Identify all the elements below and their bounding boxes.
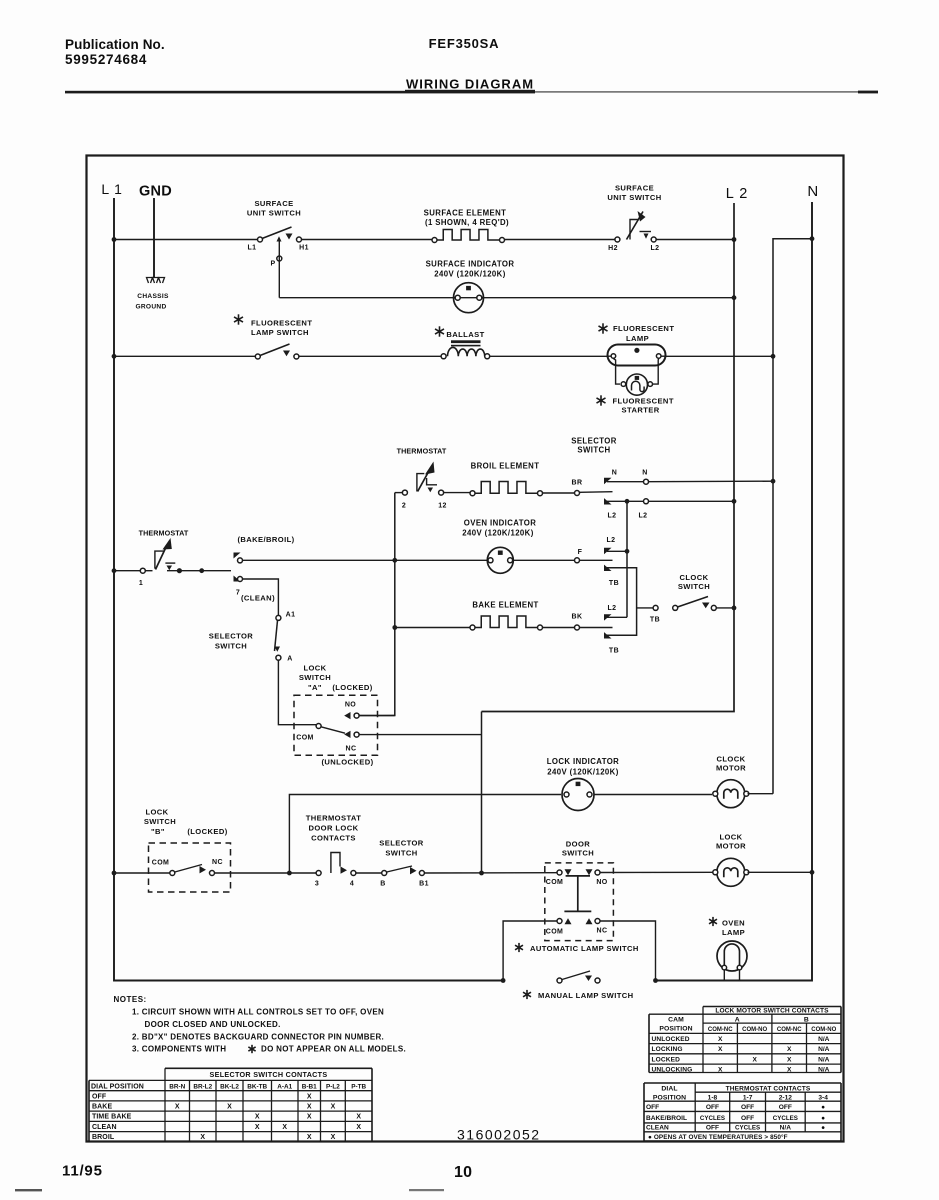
svg-text:X: X (752, 1056, 757, 1063)
svg-text:(1 SHOWN, 4 REQ'D): (1 SHOWN, 4 REQ'D) (425, 218, 509, 227)
oven thermostat (395, 492, 402, 494)
oven lamp asterisk (712, 917, 714, 926)
svg-text:BROIL ELEMENT: BROIL ELEMENT (471, 462, 540, 471)
svg-text:BALLAST: BALLAST (446, 330, 484, 339)
bake/broil contact B (234, 553, 241, 559)
svg-text:MANUAL LAMP SWITCH: MANUAL LAMP SWITCH (538, 991, 634, 1000)
door switch dashed box (545, 863, 614, 941)
terminal BR (575, 491, 580, 496)
svg-text:L2: L2 (651, 245, 660, 252)
svg-text:SWITCH: SWITCH (385, 849, 417, 858)
svg-text:BK: BK (572, 614, 583, 621)
svg-text:●: ● (821, 1124, 825, 1131)
svg-text:LOCK: LOCK (145, 808, 168, 817)
svg-text:SWITCH: SWITCH (215, 642, 247, 651)
svg-text:NO: NO (345, 702, 356, 709)
clock motor (717, 780, 745, 808)
svg-text:CYCLES: CYCLES (700, 1115, 725, 1122)
svg-text:COM: COM (546, 879, 564, 886)
svg-text:CLEAN: CLEAN (646, 1124, 669, 1131)
svg-text:X: X (175, 1104, 180, 1111)
svg-text:OFF: OFF (741, 1115, 754, 1122)
svg-text:OFF: OFF (779, 1104, 792, 1111)
wire clock motor to N branch (748, 793, 774, 795)
svg-text:X: X (718, 1036, 723, 1043)
svg-text:(CLEAN): (CLEAN) (241, 594, 275, 603)
bake element (470, 625, 475, 630)
lock switch A NC contact (344, 731, 350, 738)
svg-text:OFF: OFF (706, 1124, 719, 1131)
door switch lower pole (557, 919, 562, 924)
svg-text:MOTOR: MOTOR (716, 764, 746, 773)
wire NC to door lock feed (359, 734, 482, 736)
lock switch A NO contact (344, 712, 350, 719)
svg-text:SURFACE ELEMENT: SURFACE ELEMENT (424, 209, 507, 218)
svg-text:1-7: 1-7 (743, 1094, 753, 1101)
svg-text:BR: BR (572, 480, 583, 487)
svg-text:COM: COM (152, 860, 170, 867)
lock motor (717, 858, 745, 886)
svg-text:DIAL: DIAL (661, 1086, 677, 1093)
selector switch contact N row (604, 478, 612, 484)
svg-text:X: X (307, 1104, 312, 1111)
wire lock motor to N (748, 871, 813, 873)
svg-text:OVEN INDICATOR: OVEN INDICATOR (464, 519, 536, 528)
manual lamp switch (501, 978, 506, 983)
svg-text:UNIT SWITCH: UNIT SWITCH (607, 193, 661, 202)
svg-text:●: ● (821, 1115, 825, 1122)
svg-text:B1: B1 (419, 881, 429, 888)
svg-text:N: N (807, 183, 818, 200)
svg-text:L 2: L 2 (726, 186, 749, 202)
svg-text:(UNLOCKED): (UNLOCKED) (321, 758, 373, 767)
svg-text:TB: TB (650, 617, 660, 624)
automatic lamp switch asterisk (518, 943, 520, 952)
lock motor switch contacts table (649, 1007, 841, 1073)
svg-text:POSITION: POSITION (659, 1026, 692, 1033)
svg-text:UNIT SWITCH: UNIT SWITCH (247, 209, 301, 218)
wire lock switch B to riser (215, 872, 317, 874)
wire door switch lower NC to oven lamp feed (600, 921, 656, 981)
thermostat door lock contact terminal 3 (316, 871, 321, 876)
wire to selector B (356, 872, 382, 874)
svg-text:NC: NC (597, 928, 608, 935)
fluorescent lamp switch asterisk (238, 314, 240, 324)
svg-text:FLUORESCENT: FLUORESCENT (613, 397, 674, 406)
wire lamp to N branch (666, 355, 774, 357)
svg-text:P-L2: P-L2 (326, 1084, 340, 1091)
svg-text:NC: NC (212, 859, 223, 866)
wire center bus top corner (358, 493, 395, 716)
clean contact 7 (234, 576, 241, 582)
svg-text:SELECTOR: SELECTOR (209, 632, 254, 641)
svg-text:L2: L2 (608, 605, 617, 612)
svg-text:5995274684: 5995274684 (65, 52, 147, 67)
svg-text:SELECTOR: SELECTOR (571, 437, 617, 446)
svg-text:THERMOSTAT CONTACTS: THERMOSTAT CONTACTS (726, 1086, 811, 1093)
svg-text:SELECTOR: SELECTOR (379, 839, 424, 848)
broil element (470, 491, 475, 496)
lock switch A COM (316, 724, 321, 729)
svg-text:A-A1: A-A1 (277, 1084, 292, 1091)
svg-text:X: X (307, 1114, 312, 1121)
svg-text:(LOCKED): (LOCKED) (187, 827, 227, 836)
svg-text:STARTER: STARTER (622, 406, 660, 415)
svg-text:LOCK INDICATOR: LOCK INDICATOR (547, 757, 619, 766)
svg-text:3-4: 3-4 (818, 1094, 828, 1101)
wire L1 to fluorescent lamp switch (114, 355, 256, 357)
svg-text:1. CIRCUIT SHOWN WITH ALL CONT: 1. CIRCUIT SHOWN WITH ALL CONTROLS SET T… (132, 1008, 384, 1017)
svg-text:N: N (642, 470, 647, 477)
svg-text:SURFACE: SURFACE (615, 184, 654, 193)
wire BK to selector blade (580, 627, 613, 629)
svg-text:CHASSIS: CHASSIS (137, 293, 169, 300)
svg-text:BR-L2: BR-L2 (193, 1084, 212, 1091)
svg-text:LOCK MOTOR SWITCH CONTACTS: LOCK MOTOR SWITCH CONTACTS (715, 1008, 829, 1015)
svg-text:1: 1 (139, 580, 143, 587)
svg-text:COM-NC: COM-NC (777, 1027, 802, 1033)
thermostat door lock contact terminal 4 (351, 871, 356, 876)
selector switch link wire (626, 501, 628, 551)
svg-text:"A": "A" (308, 683, 322, 692)
svg-text:N: N (612, 470, 617, 477)
svg-text:1-8: 1-8 (708, 1094, 718, 1101)
svg-text:OVEN: OVEN (722, 919, 745, 928)
surface unit switch (right) (615, 237, 620, 242)
diagram border frame (87, 156, 844, 1142)
svg-text:LAMP: LAMP (722, 928, 745, 937)
svg-text:X: X (718, 1046, 723, 1053)
lock indicator lamp (562, 779, 594, 811)
wire broil element to BR terminal (542, 492, 575, 494)
wire N branch to fluorescent feed (773, 239, 812, 794)
svg-text:DIAL POSITION: DIAL POSITION (91, 1084, 144, 1091)
svg-text:X: X (255, 1114, 260, 1121)
wire clean contact to selector A1 (243, 579, 279, 615)
svg-text:TB: TB (609, 580, 619, 587)
svg-text:X: X (227, 1104, 232, 1111)
svg-text:TIME BAKE: TIME BAKE (92, 1114, 132, 1121)
svg-text:DOOR CLOSED AND UNLOCKED.: DOOR CLOSED AND UNLOCKED. (145, 1020, 281, 1029)
svg-text:AUTOMATIC LAMP SWITCH: AUTOMATIC LAMP SWITCH (530, 944, 639, 953)
svg-text:N/A: N/A (780, 1124, 792, 1131)
svg-text:NOTES:: NOTES: (114, 995, 147, 1004)
surface element (432, 238, 437, 243)
svg-text:P-TB: P-TB (351, 1084, 366, 1091)
svg-text:2-12: 2-12 (779, 1094, 793, 1101)
svg-text:COM-NO: COM-NO (742, 1027, 767, 1033)
svg-text:OFF: OFF (92, 1093, 107, 1100)
wire F to selector blade (580, 559, 613, 561)
svg-text:POSITION: POSITION (653, 1094, 686, 1101)
wire switch to L2 (656, 239, 734, 241)
svg-text:COM: COM (546, 929, 564, 936)
svg-text:UNLOCKED: UNLOCKED (652, 1036, 690, 1043)
selector switch contact L2 row (604, 498, 612, 504)
wire BR to selector blade (580, 491, 613, 494)
svg-text:3. COMPONENTS WITH: 3. COMPONENTS WITH (132, 1045, 226, 1054)
svg-text:4: 4 (350, 881, 354, 888)
svg-text:CLOCK: CLOCK (680, 573, 709, 582)
svg-text:B-B1: B-B1 (302, 1084, 317, 1091)
svg-text:(LOCKED): (LOCKED) (332, 683, 372, 692)
svg-text:N/A: N/A (818, 1036, 830, 1043)
selector switch contact TB bracket (604, 565, 612, 571)
svg-text:X: X (307, 1134, 312, 1141)
svg-text:X: X (356, 1124, 361, 1131)
wire switch to ballast (299, 355, 442, 357)
wire L1 to surface unit switch (114, 239, 258, 241)
svg-text:OFF: OFF (741, 1104, 754, 1111)
wire GND stub (153, 198, 155, 277)
wire center bus to bake element (395, 627, 470, 629)
ballast core bars (451, 340, 481, 343)
svg-text:7: 7 (236, 590, 240, 597)
wire selector B1 to door switch (424, 872, 557, 874)
svg-text:GND: GND (139, 184, 172, 200)
svg-text:DOOR LOCK: DOOR LOCK (308, 824, 358, 833)
svg-text:X: X (331, 1134, 336, 1141)
ballast coil (448, 347, 485, 356)
svg-text:X: X (282, 1124, 287, 1131)
svg-text:316002052: 316002052 (457, 1127, 541, 1143)
svg-text:F: F (578, 549, 583, 556)
svg-text:240V (120K/120K): 240V (120K/120K) (547, 768, 618, 777)
wire NO to center bus (359, 715, 395, 717)
svg-text:X: X (718, 1067, 723, 1074)
svg-text:LAMP: LAMP (626, 334, 649, 343)
svg-text:CLEAN: CLEAN (92, 1124, 117, 1131)
svg-text:COM: COM (296, 735, 314, 742)
svg-text:OFF: OFF (706, 1104, 719, 1111)
svg-text:11/95: 11/95 (62, 1163, 103, 1180)
svg-text:OFF: OFF (646, 1104, 659, 1111)
svg-text:P: P (270, 261, 275, 268)
wire bake element to BK terminal (542, 627, 575, 629)
wire TB to clock switch (637, 607, 653, 609)
svg-text:X: X (356, 1114, 361, 1121)
wire bottom row (114, 872, 170, 874)
selector switch contact A1-A (276, 615, 281, 620)
svg-text:COM-NC: COM-NC (708, 1027, 733, 1033)
svg-text:12: 12 (438, 503, 447, 510)
svg-text:Publication No.: Publication No. (65, 37, 165, 52)
svg-text:BAKE ELEMENT: BAKE ELEMENT (472, 601, 538, 610)
fluorescent starter asterisk (600, 395, 602, 405)
lock switch A blade (321, 727, 345, 733)
svg-text:240V (120K/120K): 240V (120K/120K) (434, 270, 505, 279)
wire door switch lower COM to manual lamp row (503, 921, 557, 981)
svg-text:3: 3 (315, 881, 319, 888)
selector switch contact B-B1 (382, 871, 387, 876)
door switch upper pole (557, 870, 562, 875)
svg-text:CONTACTS: CONTACTS (311, 834, 356, 843)
svg-text:A1: A1 (286, 612, 296, 619)
svg-text:SWITCH: SWITCH (144, 817, 176, 826)
svg-text:X: X (331, 1104, 336, 1111)
svg-text:X: X (787, 1067, 792, 1074)
svg-text:● OPENS AT OVEN TEMPERATURES: ● OPENS AT OVEN TEMPERATURES > 850°F (648, 1133, 788, 1141)
svg-text:N/A: N/A (818, 1056, 830, 1063)
svg-text:N/A: N/A (818, 1046, 830, 1053)
svg-text:SURFACE: SURFACE (254, 199, 293, 208)
svg-text:LOCKING: LOCKING (652, 1046, 683, 1053)
wire N bus vertical (656, 202, 813, 981)
wire door lock feed vertical (481, 712, 483, 874)
fluorescent starter (626, 374, 647, 395)
chassis ground symbol (147, 278, 153, 284)
wire A to lock switch A common (278, 660, 316, 725)
svg-text:H1: H1 (299, 245, 309, 252)
svg-text:DO NOT APPEAR ON ALL MODELS.: DO NOT APPEAR ON ALL MODELS. (261, 1045, 406, 1054)
wire L1 bus vertical (114, 198, 503, 981)
svg-text:NO: NO (596, 879, 607, 886)
svg-text:240V (120K/120K): 240V (120K/120K) (462, 529, 533, 538)
svg-text:●: ● (821, 1104, 825, 1111)
wire lock indicator to clock motor (595, 794, 713, 796)
scan marks (15, 1189, 42, 1191)
svg-text:A: A (735, 1016, 740, 1023)
svg-text:NC: NC (346, 746, 357, 753)
oven indicator lamp (487, 547, 513, 573)
ballast asterisk (439, 326, 441, 336)
svg-text:BROIL: BROIL (92, 1134, 115, 1141)
svg-text:FLUORESCENT: FLUORESCENT (613, 324, 674, 333)
svg-text:THERMOSTAT: THERMOSTAT (306, 814, 362, 823)
svg-text:CLOCK: CLOCK (717, 755, 746, 764)
svg-text:"B": "B" (151, 827, 165, 836)
svg-text:CYCLES: CYCLES (735, 1124, 760, 1131)
wire door switch NO to lock motor (600, 871, 714, 873)
wire L1 to thermostat (114, 570, 141, 572)
wire P to surface indicator (278, 242, 280, 298)
svg-text:(BAKE/BROIL): (BAKE/BROIL) (237, 535, 294, 544)
svg-text:SWITCH: SWITCH (577, 446, 610, 455)
svg-text:L 1: L 1 (101, 181, 122, 197)
svg-text:WIRING DIAGRAM: WIRING DIAGRAM (406, 77, 534, 92)
manual lamp switch asterisk (526, 990, 528, 999)
lock switch A dashed box (294, 695, 378, 755)
surface indicator lamp (454, 283, 484, 313)
wire bottom row riser to lock indicator (289, 795, 561, 874)
wire ballast to fluorescent lamp (490, 355, 608, 357)
header rule (65, 91, 535, 94)
svg-text:BAKE: BAKE (92, 1104, 112, 1111)
fluorescent lamp switch (255, 354, 260, 359)
svg-text:X: X (787, 1046, 792, 1053)
svg-text:10: 10 (454, 1164, 472, 1181)
svg-text:MOTOR: MOTOR (716, 842, 746, 851)
svg-text:CYCLES: CYCLES (773, 1115, 798, 1122)
svg-text:N/A: N/A (818, 1067, 830, 1074)
terminal F (575, 558, 580, 563)
fluorescent lamp asterisk (602, 323, 604, 333)
wire element to right surface unit switch (504, 239, 616, 241)
wire thermostat to broil element (444, 492, 471, 494)
oven lamp (717, 941, 747, 971)
wire oven indicator to F terminal (513, 559, 574, 561)
svg-text:COM-NO: COM-NO (811, 1027, 836, 1033)
svg-text:SWITCH: SWITCH (299, 673, 331, 682)
svg-text:BK-L2: BK-L2 (220, 1084, 239, 1091)
svg-text:L2: L2 (608, 513, 617, 520)
clock switch (653, 605, 658, 610)
wire switch to surface element (301, 239, 434, 241)
svg-text:BR-N: BR-N (169, 1084, 185, 1091)
svg-text:L1: L1 (248, 245, 257, 252)
svg-text:L2: L2 (639, 513, 648, 520)
fluorescent lamp (608, 345, 666, 366)
svg-text:B: B (804, 1016, 809, 1023)
thermostat door lock contact (331, 853, 340, 874)
wire lamp pins to starter (613, 359, 620, 385)
svg-text:UNLOCKING: UNLOCKING (652, 1067, 693, 1074)
svg-text:GROUND: GROUND (135, 304, 166, 311)
svg-text:X: X (200, 1134, 205, 1141)
svg-text:X: X (787, 1056, 792, 1063)
svg-text:CAM: CAM (668, 1017, 684, 1024)
door switch actuator bar (577, 876, 579, 911)
svg-text:FEF350SA: FEF350SA (429, 36, 500, 51)
svg-text:B: B (380, 881, 385, 888)
wire thermostat to mode contacts (167, 570, 231, 572)
svg-text:FLUORESCENT: FLUORESCENT (251, 319, 312, 328)
svg-text:2. BD"X" DENOTES BACKGUARD CON: 2. BD"X" DENOTES BACKGUARD CONNECTOR PIN… (132, 1033, 384, 1042)
svg-text:X: X (307, 1093, 312, 1100)
thermostat contacts table (644, 1083, 841, 1141)
svg-text:TB: TB (609, 648, 619, 655)
svg-text:LOCK: LOCK (303, 664, 326, 673)
selector switch contact L2 bottom (604, 614, 612, 620)
svg-text:A: A (287, 656, 292, 663)
svg-text:LOCK: LOCK (719, 833, 742, 842)
svg-text:THERMOSTAT: THERMOSTAT (139, 529, 189, 538)
svg-text:LOCKED: LOCKED (652, 1056, 681, 1063)
svg-text:DOOR: DOOR (566, 840, 590, 849)
surface unit switch (left) (258, 237, 263, 242)
svg-text:SELECTOR SWITCH CONTACTS: SELECTOR SWITCH CONTACTS (210, 1070, 328, 1079)
wire L2 bus vertical (482, 203, 735, 712)
lock switch B (170, 871, 175, 876)
svg-text:X: X (255, 1124, 260, 1131)
lock switch B dashed box (149, 843, 231, 892)
svg-text:SURFACE INDICATOR: SURFACE INDICATOR (426, 260, 515, 269)
selector switch contact L2 second (604, 548, 612, 554)
svg-text:SWITCH: SWITCH (562, 849, 594, 858)
svg-text:H2: H2 (608, 245, 618, 252)
svg-text:LAMP SWITCH: LAMP SWITCH (251, 328, 309, 337)
svg-text:THERMOSTAT: THERMOSTAT (397, 447, 447, 456)
terminal BK (575, 625, 580, 630)
svg-text:BAKE/BROIL: BAKE/BROIL (646, 1115, 687, 1122)
svg-text:L2: L2 (607, 537, 616, 544)
svg-text:2: 2 (402, 503, 406, 510)
selector switch contacts table (89, 1068, 372, 1142)
svg-text:BK-TB: BK-TB (247, 1084, 267, 1091)
svg-text:SWITCH: SWITCH (678, 582, 710, 591)
surface unit switch P terminal (277, 256, 282, 261)
thermostat (bake/broil) (140, 568, 145, 573)
wire bake/broil contact to oven indicator (243, 559, 488, 561)
